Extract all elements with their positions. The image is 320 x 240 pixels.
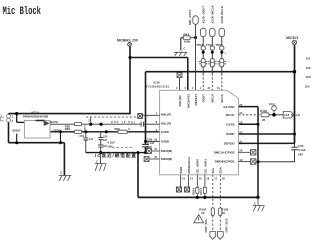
svg-text:TLV320ADC3101: TLV320ADC3101 [146,85,170,89]
node junction MIC3V3 rail corner [293,70,296,73]
svg-text:MCLK: MCLK [226,113,235,117]
label X128_BCLK vertical [220,5,224,23]
node junction DVSS on ground column [257,123,260,126]
wire IC14 GND2 drop [60,132,62,143]
label DSP_SDA vertical [225,217,229,232]
ground at R44 [174,52,187,56]
node junction cap join [99,151,102,154]
svg-text:SCL: SCL [211,167,215,173]
label C56 value [298,144,306,156]
ferrite on IN2L(P) path [138,114,143,119]
svg-text:DVSS: DVSS [226,123,234,127]
svg-text:IN1R(M): IN1R(M) [161,149,172,153]
testpoint TP18 [201,46,205,54]
svg-text:IC15: IC15 [154,81,161,85]
svg-text:14: 14 [190,176,193,180]
svg-text:11: 11 [154,147,157,151]
capacitor C53 column double [98,132,103,153]
wire SDA dashed pin 18 [219,175,221,232]
svg-text:MICBIAS_2V0: MICBIAS_2V0 [117,38,138,42]
flag X128_MCLK [283,112,294,118]
svg-text:TP21: TP21 [269,102,276,106]
label C53 value [103,136,108,148]
flag DSP_SCL [210,232,216,240]
label R105 22 [199,208,206,216]
wire ground drop to bottom bus [137,153,139,198]
wire analog ground link y151 [86,152,146,154]
resistor R106 22 [219,208,222,216]
node junction ADR0 on bus [196,196,199,199]
label c at cap ground [96,159,98,163]
flag X128_DOUT [200,28,206,37]
wire MICBIAS_2V0 vertical from flag to mic line [129,46,131,113]
svg-text:IC直近/銅箔配置: IC直近/銅箔配置 [95,152,136,159]
connector sheet-edge mark [0,114,3,120]
svg-text:1uF: 1uF [89,138,94,141]
svg-text:8: 8 [156,120,158,124]
wire bottom ground bus [138,196,258,198]
nc box on pin 13 [176,175,181,192]
resistor R66 on I2C_ADR0 pin 15 [196,175,199,198]
wire MIC_RST# to RESET pin [195,24,197,90]
node junction C55 to ground link [144,151,147,154]
label R66 vertical [192,187,195,194]
label R82 value [65,124,86,128]
svg-text:DSP_SDA: DSP_SDA [225,217,229,232]
svg-text:16V: 16V [298,152,303,156]
node junction ADR1 on bus [203,196,206,199]
svg-text:C51 (2.5p): C51 (2.5p) [111,120,135,124]
node junction ground link drop [137,151,140,154]
node junction TP21 tap [272,113,276,117]
wire R103 to MCLK flag [269,114,283,116]
svg-text:IN1B: IN1B [179,166,183,174]
label GND1 [12,129,20,133]
net MIC3V3 flag [292,40,297,45]
flag X128_BCLK [219,28,225,37]
wire MICBIAS_2V0 branch to MICBIAS1 pin [130,58,188,91]
wire IN2L(P) pin 7 [142,114,159,116]
label IC14 refdes [23,111,49,119]
title Mic Block [3,5,42,18]
svg-text:GND1: GND1 [12,129,20,133]
svg-text:DMDIN/GPIO1: DMDIN/GPIO1 [215,160,235,164]
node junction MICBIAS at IC14 drop [15,112,18,115]
node junction DVDD on rail [293,133,296,136]
flag DSP_SDA [217,232,223,240]
node junction GND1 on ground line [15,141,18,144]
label R106 22 [221,208,228,216]
svg-text:1: 1 [12,115,14,119]
label X128_DOUT vertical [202,6,206,24]
wire IC14 supply drop [17,114,25,123]
node junction ground column at bus [256,196,259,199]
svg-text:22: 22 [201,211,205,215]
svg-text:IN1L(M): IN1L(M) [178,96,182,107]
label TP18 TP19 TP20 [196,43,222,47]
resistor R67 on I2C_ADR1 pin 16 [203,175,206,198]
svg-text:MICBIAS1A: MICBIAS1A [187,156,191,173]
connector mic jack pins [7,114,11,122]
svg-text:TP18: TP18 [196,43,203,47]
wire MCLK dashed to R103 [238,114,261,116]
label bead value [225,52,227,55]
svg-text:DMCLK/GPIO2: DMCLK/GPIO2 [214,151,235,155]
label C54 value [108,141,116,149]
node junction AVDD tap [144,140,147,143]
svg-text:18: 18 [222,176,225,180]
svg-text:I2C_ADR0: I2C_ADR0 [196,159,200,174]
wire BCLK column [221,37,223,91]
resistor R44 100k with wires [181,36,196,51]
flag MIC_RST# [193,16,199,24]
svg-text:IN2R(M): IN2R(M) [161,157,172,161]
flag X128_WCLK [210,28,216,37]
nc box on pin 14 [185,175,190,192]
svg-text:16: 16 [206,176,209,180]
svg-text:C: C [60,171,62,175]
resistor R82 0 [74,123,81,126]
svg-text:R103: R103 [260,109,267,113]
wire AVSS line from IC14 GND2 to pin 9 [50,131,160,133]
svg-text:17: 17 [214,176,217,180]
net MICBIAS_2V0 flag [128,42,132,46]
svg-text:R67 0: R67 0 [200,187,203,194]
svg-text:2: 2 [89,120,91,123]
nc box on DMDIN pin 19 [238,159,256,164]
wire AVDD pin stub [146,140,160,142]
svg-text:MIC3V3: MIC3V3 [286,36,298,40]
label R103 22 [260,109,267,122]
svg-text:MICBIAS1: MICBIAS1 [187,93,191,108]
svg-text:Mic Block: Mic Block [3,5,42,18]
label IC15 refdes [146,81,170,89]
svg-text:.r: .r [225,52,227,55]
label R67 vertical [200,187,203,194]
svg-text:32: 32 [208,87,211,90]
svg-text:122: 122 [306,66,311,70]
svg-text:X128_BCLK: X128_BCLK [220,5,224,23]
label MIC_RST# vertical [188,9,192,25]
svg-text:DSP_SCL: DSP_SCL [204,218,208,232]
svg-text:R66 0: R66 0 [192,187,195,194]
svg-text:22: 22 [222,211,226,215]
wire WCLK column [211,37,213,91]
resistor R103 22 on MCLK [261,113,269,117]
wire SCL dashed pin 17 [212,175,214,232]
label stub 2 [89,120,91,123]
resistor R69 0 [118,130,128,133]
wire IC14 GND1 drop [16,134,18,143]
label connector pins 1 2 [12,115,14,124]
svg-text:R83: R83 [65,127,71,131]
wire mic connector shield to ground line [8,122,10,143]
node junction C56 return [257,160,260,163]
warning triangle note [194,215,204,223]
svg-text:4: 4 [176,87,178,90]
ferrite bead on DOUT [199,59,208,67]
label R83 value [65,127,86,131]
svg-text:AVSS: AVSS [161,130,169,134]
svg-text:13: 13 [182,176,185,180]
svg-text:100k: 100k [184,40,191,44]
svg-text:EX-PAD: EX-PAD [223,105,235,109]
ferrite on IN2R(M) pin 12 [144,157,160,162]
ferrite on IN1L(M) pin with stubs [177,72,182,91]
svg-text:C: C [183,47,185,51]
svg-text:C52: C52 [80,135,85,138]
ground bus end [253,197,265,211]
wire cap ground drop [99,153,101,164]
node junction MIC_RST at R44 [194,36,197,39]
testpoint TP20 [220,46,224,54]
node junction AVSS a [84,130,87,133]
label DSP_SCL vertical [204,218,208,232]
svg-text:TP19: TP19 [206,43,213,47]
svg-text:2: 2 [192,87,194,90]
note japanese placement [95,152,136,159]
ground mic connector [59,176,72,181]
svg-text:C: C [96,159,98,163]
svg-text:IN2L(P): IN2L(P) [161,112,172,116]
svg-text:WCLK: WCLK [211,93,215,103]
label X128_WCLK vertical [211,5,215,24]
buffer symbol in IC14 [44,121,49,126]
label R69 value [115,127,131,131]
capacitor C51 series [141,122,144,127]
wire DATA line IC14 to C51 [50,123,160,125]
svg-text:RESET#: RESET# [194,93,198,105]
svg-text:7: 7 [156,111,158,115]
testpoint TP19 [210,46,214,54]
label right pin numbers [239,103,242,162]
svg-text:AVDD: AVDD [161,140,170,144]
svg-text:BCLK: BCLK [220,93,224,102]
svg-text:GND2: GND2 [53,128,61,132]
svg-text:DOVDD: DOVDD [224,142,236,146]
svg-text:X128_WCLK: X128_WCLK [211,5,215,24]
svg-text:0: 0 [129,127,131,131]
wire C56 return to ground column [258,161,295,163]
svg-text:MIC_RST#: MIC_RST# [188,9,192,25]
label c at R44 ground [183,47,185,51]
wire DVSS pin 23 [238,123,258,125]
label TP21 [269,102,276,106]
svg-text:X128_DOUT: X128_DOUT [202,6,206,24]
svg-text:SPM0423HD4H-WB: SPM0423HD4H-WB [23,114,49,118]
wire dashed near caps [112,146,133,148]
wire MICBIAS_2V0 horizontal to mic connector [9,114,131,115]
label c at bus ground [254,201,256,205]
node MICBIAS junction [129,56,132,59]
wire DOVDD pin 21 [238,142,294,144]
svg-text:22: 22 [262,118,266,122]
label page refs right edge [305,57,311,89]
svg-text:16V: 16V [147,145,152,149]
IC14 mic body [24,121,50,139]
svg-text:SDA: SDA [219,166,223,173]
node junction DATA 1 [89,123,92,126]
svg-text:15: 15 [199,176,202,180]
label C52 value [80,135,94,141]
svg-text:2: 2 [12,119,14,123]
label c at mic ground [60,171,62,175]
node junction GND2 drop bottom [59,141,62,144]
wire EX-PAD pin 25 to ground column [238,107,258,198]
ground mic caps [95,163,106,171]
svg-text:R69: R69 [115,127,121,131]
wire MIC3V3 rail [146,45,295,144]
resistor R83 0 [74,130,81,133]
label C55 value [147,138,155,149]
svg-text:12: 12 [154,155,157,159]
capacitor C52 column [83,132,88,153]
svg-text:R44: R44 [184,32,190,36]
wire DVDD pin 22 [238,133,294,135]
svg-text:123: 123 [306,75,311,79]
capacitor C55 plates [142,144,149,147]
wire mic ground line [9,143,65,176]
label top pin names vertical [178,93,224,108]
label GND2 [53,128,61,132]
label right pin names [214,105,236,164]
wire stub to dashed alt path [90,117,92,124]
wire dashed alt path to ferrite [86,116,138,118]
label DATA [50,120,59,124]
svg-text:DVDD: DVDD [226,132,235,136]
label C51 value [111,120,135,124]
svg-text:I2C_ADR1: I2C_ADR1 [203,159,207,174]
svg-text:3: 3 [185,87,187,90]
node junction AVSS b [105,130,108,133]
resistor R105 22 [211,208,214,216]
label top pin numbers [176,87,220,90]
label left pin numbers [154,111,157,159]
wire DOUT column [202,37,204,91]
svg-text:128_MCLK: 128_MCLK [284,113,300,117]
ferrite bead on WCLK [208,59,217,67]
label MICBIAS_2V0 [117,38,138,42]
testpoint TP21 [272,106,277,114]
svg-text:16V: 16V [108,145,113,149]
svg-text:120: 120 [305,84,310,88]
label 128_MCLK in flag [284,113,300,117]
wire MIC3V3 column to AVDD [145,72,147,153]
ferrite bead on BCLK [218,59,227,67]
svg-text:DOUT: DOUT [202,94,206,103]
svg-text:121: 121 [306,57,311,61]
label MIC3V3 [286,36,298,40]
ferrite on IN1R(M) pin 11 [147,149,160,154]
node junction DATA 2 [100,123,103,126]
label bottom pin numbers [182,176,225,180]
label R44 value [184,32,191,43]
svg-text:IN1L(P): IN1L(P) [161,121,172,125]
svg-text:TP20: TP20 [215,43,222,47]
svg-text:31: 31 [217,87,220,90]
nc box on DMCLK pin 20 [238,150,256,155]
label bottom pin names vertical [179,156,223,173]
node junction GND2 drop top [59,130,62,133]
svg-text:C: C [254,201,256,205]
svg-text:DATA: DATA [50,120,59,124]
IC15 body TLV320ADC3101 [160,90,239,175]
capacitor C56 with leads [291,143,297,161]
label left pin names [161,112,172,161]
svg-text:1: 1 [200,87,202,90]
